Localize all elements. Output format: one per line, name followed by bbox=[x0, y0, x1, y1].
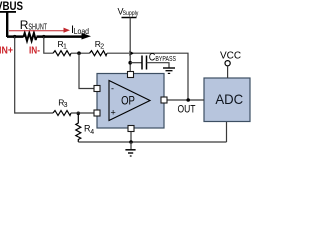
svg-text:VCC: VCC bbox=[220, 50, 241, 61]
pin inverting input bbox=[94, 86, 100, 92]
ADC U2 body bbox=[204, 78, 250, 122]
wire R1 to junction bbox=[71, 52, 90, 54]
V_Supply terminal bbox=[118, 6, 140, 17]
wire R3 to + input bbox=[71, 112, 95, 114]
node IN+ label bbox=[0, 46, 13, 57]
pin op-amp V- bottom bbox=[128, 126, 134, 132]
wire op-amp output bbox=[164, 99, 204, 101]
VCC terminal bbox=[220, 50, 241, 78]
I_Load label bbox=[71, 24, 89, 36]
capacitor CBYPASS bbox=[142, 51, 176, 69]
resistor R1 bbox=[53, 39, 71, 56]
wire ADC bottom to ground bus bbox=[226, 122, 228, 142]
wire R2 to feedback with hop arrowhead bbox=[107, 51, 134, 56]
svg-text:4: 4 bbox=[90, 129, 94, 136]
pin non-inverting input bbox=[94, 110, 100, 116]
resistor R2 bbox=[90, 39, 108, 56]
pin op-amp V+ top bbox=[128, 72, 134, 78]
junction node R1/R2 bbox=[77, 51, 81, 55]
svg-text:-: - bbox=[111, 84, 114, 94]
svg-text:VBUS: VBUS bbox=[0, 0, 23, 13]
op-amp U1 body bbox=[97, 74, 164, 129]
junction R3/R4 node bbox=[77, 112, 81, 116]
wire IN+ vertical bbox=[14, 37, 17, 113]
junction dot right of shunt bbox=[42, 35, 45, 38]
main bus wire bbox=[7, 35, 24, 38]
wire IN- drop bbox=[44, 37, 53, 54]
svg-text:ADC: ADC bbox=[215, 91, 243, 107]
wire cap to ground bbox=[147, 63, 170, 68]
svg-text:1: 1 bbox=[63, 44, 67, 51]
svg-text:BYPASS: BYPASS bbox=[155, 54, 176, 63]
junction dot left of shunt bbox=[13, 35, 16, 38]
junction output/feedback bbox=[186, 98, 190, 102]
resistor R3 bbox=[53, 98, 71, 116]
svg-text:+: + bbox=[111, 108, 116, 118]
wire feedback top bbox=[133, 53, 188, 100]
wire IN+ to R3 bbox=[15, 112, 53, 114]
wire supply vertical bbox=[129, 18, 131, 72]
svg-text:Load: Load bbox=[74, 26, 90, 36]
svg-text:SHUNT: SHUNT bbox=[28, 23, 47, 32]
junction ground bus / op-amp bbox=[129, 140, 133, 144]
wire junction down to inverting input bbox=[79, 53, 95, 88]
VBUS terminal bbox=[0, 0, 23, 37]
ground (main) bbox=[125, 142, 135, 156]
wire to bypass cap bbox=[130, 62, 142, 64]
shunt resistor RSHUNT bbox=[20, 18, 47, 41]
junction cap tee bbox=[128, 61, 132, 65]
pin op-amp output bbox=[161, 97, 167, 103]
svg-text:R: R bbox=[20, 18, 29, 32]
ground bus wire bbox=[78, 141, 226, 143]
resistor R4 bbox=[76, 113, 95, 142]
svg-text:2: 2 bbox=[100, 44, 104, 51]
svg-text:IN+: IN+ bbox=[0, 46, 13, 57]
svg-text:OUT: OUT bbox=[178, 104, 196, 116]
svg-text:IN-: IN- bbox=[29, 46, 40, 57]
op-amp triangle bbox=[109, 81, 150, 121]
ground (bypass) bbox=[163, 68, 175, 73]
svg-text:OP: OP bbox=[121, 94, 135, 108]
node IN- label bbox=[29, 46, 40, 57]
bus wire after shunt with load arrow bbox=[37, 33, 92, 40]
svg-text:3: 3 bbox=[64, 102, 68, 109]
wire op-amp bottom pin to ground bus bbox=[130, 129, 132, 143]
red current arrow bbox=[9, 28, 70, 33]
svg-text:Supply: Supply bbox=[123, 10, 139, 17]
